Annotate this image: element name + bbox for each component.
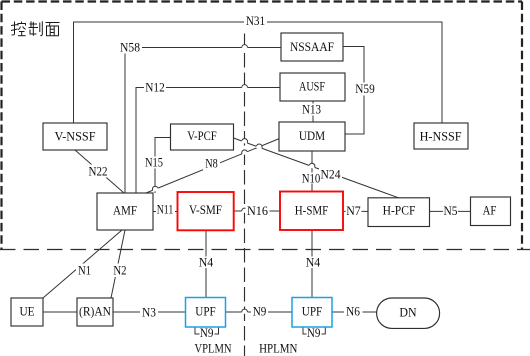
label N22 xyxy=(87,165,109,179)
box H-NSSF xyxy=(414,123,468,149)
svg-text:N3: N3 xyxy=(142,306,156,320)
glyph 控 xyxy=(11,22,26,36)
svg-text:VPLMN: VPLMN xyxy=(195,341,232,355)
svg-text:(R)AN: (R)AN xyxy=(79,305,111,319)
wire N22 xyxy=(75,150,124,193)
control plane dashed border left xyxy=(0,2,2,250)
svg-text:N12: N12 xyxy=(145,81,165,95)
box V-PCF xyxy=(171,124,234,150)
label N11 xyxy=(156,203,175,217)
label N4 HPLMN xyxy=(304,256,322,270)
svg-text:N1: N1 xyxy=(78,264,91,278)
box NSSAAF xyxy=(281,33,343,61)
label N1 xyxy=(76,264,94,278)
label N9 loop HPLMN xyxy=(307,326,322,340)
hop N24 over N8 xyxy=(256,143,263,149)
svg-text:NSSAAF: NSSAAF xyxy=(290,40,334,54)
hop N8 over N15 xyxy=(152,185,159,192)
svg-text:N9: N9 xyxy=(200,326,214,340)
wire N8 xyxy=(146,139,280,194)
wire N9 inter-UPF xyxy=(226,311,292,313)
svg-text:UPF: UPF xyxy=(302,305,322,319)
wire N3 xyxy=(113,311,185,313)
svg-text:N8: N8 xyxy=(205,157,218,171)
label 控制面 (control plane) hand-drawn glyphs xyxy=(11,21,60,36)
hop N12 over divider xyxy=(242,85,248,90)
wire N6 xyxy=(332,311,377,313)
wire N59 xyxy=(343,47,364,135)
wire N9 loop under UPF HPLMN xyxy=(303,327,325,334)
box AF xyxy=(471,197,511,226)
svg-text:V-PCF: V-PCF xyxy=(187,129,217,143)
label N4 VPLMN xyxy=(197,256,215,270)
control plane dashed border right xyxy=(521,2,523,250)
wire N12 xyxy=(136,88,280,194)
wire N16 xyxy=(234,210,280,212)
wire N4 HPLMN xyxy=(311,230,313,298)
wire N2 xyxy=(111,230,125,298)
box H-PCF xyxy=(368,198,430,227)
svg-text:N31: N31 xyxy=(246,14,265,28)
svg-text:N6: N6 xyxy=(346,305,360,319)
svg-text:H-PCF: H-PCF xyxy=(383,204,416,218)
svg-text:N16: N16 xyxy=(247,204,268,218)
glyph 制 xyxy=(29,21,43,36)
hop N16 over divider xyxy=(242,208,248,213)
box V-NSSF xyxy=(43,123,107,150)
label N2 xyxy=(112,264,128,278)
label N8 xyxy=(203,157,220,171)
svg-text:N13: N13 xyxy=(302,103,321,117)
label N9 inter-UPF xyxy=(251,305,268,319)
svg-text:HPLMN: HPLMN xyxy=(259,341,297,355)
svg-text:N10: N10 xyxy=(302,172,321,186)
box AMF xyxy=(97,193,153,230)
VPLMN/HPLMN vertical dashed divider xyxy=(244,34,246,356)
wire N24 xyxy=(234,138,399,198)
svg-text:N9: N9 xyxy=(253,305,267,319)
label N24 xyxy=(319,166,342,182)
svg-text:AF: AF xyxy=(483,204,497,218)
wire N7 xyxy=(343,210,368,212)
svg-text:N11: N11 xyxy=(157,203,174,217)
hop N24 over divider xyxy=(241,138,248,144)
label N9 loop VPLMN xyxy=(200,326,215,340)
box AUSF xyxy=(280,73,345,101)
hop N58 over divider xyxy=(242,45,248,50)
svg-text:UDM: UDM xyxy=(299,129,325,143)
glyph 面 xyxy=(46,23,60,36)
hop N24 over N10 xyxy=(309,162,316,168)
label N7 xyxy=(346,204,362,218)
wire N15 xyxy=(155,138,170,194)
wire UE-(R)AN xyxy=(43,311,77,313)
wire N11 xyxy=(153,211,178,213)
label N10 xyxy=(301,172,321,186)
svg-text:N15: N15 xyxy=(145,156,163,170)
box UDM xyxy=(279,122,345,151)
box UPF VPLMN (cyan) xyxy=(186,298,226,328)
svg-text:UE: UE xyxy=(19,305,34,319)
node DN (stadium) xyxy=(377,298,440,328)
box V-SMF (red) xyxy=(178,192,234,230)
svg-text:N59: N59 xyxy=(355,82,375,96)
wire N4 VPLMN xyxy=(205,230,207,298)
label N15 xyxy=(144,156,164,170)
wire N9 loop under UPF VPLMN xyxy=(195,327,219,334)
svg-text:H-SMF: H-SMF xyxy=(295,204,329,218)
label N58 xyxy=(118,41,142,55)
svg-text:V-NSSF: V-NSSF xyxy=(55,130,96,144)
svg-text:N9: N9 xyxy=(307,326,321,340)
label N31 xyxy=(244,14,267,28)
wire N58 xyxy=(125,48,281,194)
box H-SMF (red) xyxy=(280,192,343,231)
svg-text:N58: N58 xyxy=(120,41,140,55)
label N12 xyxy=(144,81,166,95)
svg-text:N5: N5 xyxy=(444,204,458,218)
control/user plane separator dashed bottom xyxy=(0,249,530,251)
svg-text:N2: N2 xyxy=(113,264,126,278)
wire N1 xyxy=(43,230,122,298)
svg-text:AUSF: AUSF xyxy=(299,80,325,94)
box UE xyxy=(11,298,43,326)
wire N31 xyxy=(74,22,443,123)
svg-text:N7: N7 xyxy=(346,204,361,218)
svg-text:UPF: UPF xyxy=(195,305,215,319)
svg-text:N22: N22 xyxy=(89,165,108,179)
box (R)AN xyxy=(77,298,113,326)
svg-text:V-SMF: V-SMF xyxy=(189,203,222,217)
label N3 xyxy=(140,306,158,320)
hop N8 over divider xyxy=(241,149,248,156)
label N6 xyxy=(344,305,363,319)
label N59 xyxy=(354,82,376,96)
wire N5 xyxy=(430,210,471,212)
svg-text:N24: N24 xyxy=(321,168,341,182)
svg-text:N4: N4 xyxy=(306,256,321,270)
svg-text:AMF: AMF xyxy=(113,204,137,218)
hop N9 over divider xyxy=(242,309,248,314)
label N13 xyxy=(301,103,322,117)
label N5 xyxy=(443,204,458,218)
wire N13 xyxy=(312,101,314,122)
box UPF HPLMN (cyan) xyxy=(292,298,332,328)
svg-text:H-NSSF: H-NSSF xyxy=(420,129,462,143)
svg-text:N4: N4 xyxy=(199,256,214,270)
control plane dashed border top xyxy=(2,0,523,2)
label N16 xyxy=(246,203,270,218)
svg-text:DN: DN xyxy=(399,306,416,320)
wire N10 xyxy=(311,151,313,191)
